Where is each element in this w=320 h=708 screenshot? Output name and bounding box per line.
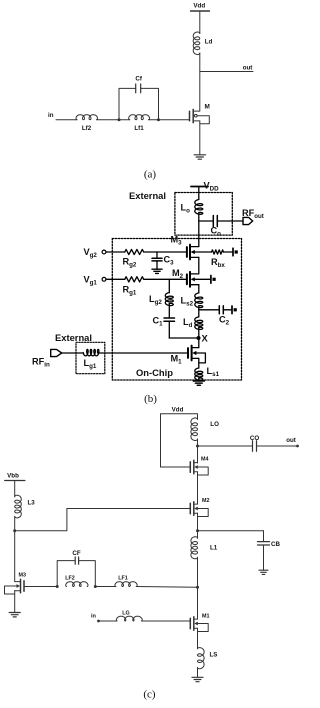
node CB branch	[196, 529, 199, 532]
wire M4 drain up	[197, 446, 199, 463]
wire Rg2 to M3 gate	[144, 251, 187, 253]
node bias	[13, 529, 16, 532]
wire Lg1 to M1 gate	[98, 352, 188, 354]
wire node to LF1	[95, 586, 116, 588]
svg-text:M3: M3	[19, 573, 27, 579]
input in (c)	[91, 614, 100, 623]
wire Vdd to Ld	[199, 11, 201, 34]
svg-text:Vdd: Vdd	[193, 3, 205, 10]
capacitor CO	[250, 435, 259, 451]
svg-text:(a): (a)	[144, 169, 157, 181]
label External bottom	[55, 332, 92, 343]
svg-text:L1: L1	[210, 545, 218, 552]
svg-text:Lf1: Lf1	[134, 125, 144, 132]
inductor LO	[191, 418, 219, 441]
transistor M2 (c)	[190, 498, 209, 517]
wire M1 body loop	[196, 353, 205, 363]
power Vbb	[5, 473, 25, 481]
svg-text:out: out	[286, 437, 296, 444]
wire out branch	[200, 64, 253, 71]
label On-Chip	[136, 367, 173, 378]
node X	[197, 333, 209, 344]
wire LF1 to rail	[136, 586, 197, 589]
inductor Ld (b)	[183, 317, 203, 330]
svg-text:L3: L3	[28, 500, 36, 507]
inductor Lg1	[83, 349, 99, 370]
wire step to M2 gate	[15, 509, 191, 531]
wire Lf1 to gate	[149, 119, 190, 121]
svg-text:M4: M4	[201, 457, 209, 463]
wire Ls2 to Ld node	[198, 306, 200, 317]
svg-text:Ld: Ld	[205, 39, 213, 46]
wire Rbx to tick	[224, 251, 234, 253]
power VDD (b)	[191, 181, 219, 193]
svg-text:out: out	[243, 64, 253, 71]
capacitor C1	[153, 304, 175, 339]
node LF1 junction	[196, 586, 199, 589]
wire CO to out	[257, 437, 299, 447]
ground CB	[259, 570, 268, 574]
wire in to Lf2	[56, 119, 77, 121]
wire M2 body to tick	[195, 278, 211, 280]
svg-text:(c): (c)	[143, 689, 156, 701]
port Vg1	[84, 274, 106, 286]
label External top	[129, 190, 166, 201]
port RFin	[32, 349, 62, 368]
wire M4 source to M2 drain	[197, 472, 199, 504]
ground C3	[152, 269, 162, 273]
transistor M3	[171, 235, 199, 260]
inductor Lo	[181, 200, 203, 215]
wire Ld to out node	[199, 53, 201, 111]
svg-text:External: External	[129, 190, 166, 201]
wire M2 source to Ls2	[198, 285, 200, 293]
ac ground tick M2 body	[211, 276, 216, 284]
wire Lf2 to node	[97, 119, 130, 121]
power Vdd (a)	[191, 3, 210, 12]
wire Vg2 to Rg2	[106, 251, 125, 253]
svg-text:Vbb: Vbb	[7, 473, 19, 480]
inductor Ls2	[181, 293, 203, 308]
node out (c)	[196, 445, 199, 448]
inductor Lg2	[149, 279, 173, 306]
svg-text:X: X	[202, 333, 209, 344]
wire Ld to X	[198, 327, 200, 347]
resistor Rg2	[123, 249, 144, 268]
svg-text:Vdd: Vdd	[172, 407, 184, 414]
inductor LF1	[115, 576, 137, 587]
svg-text:Lf2: Lf2	[82, 125, 92, 132]
wire M3 body to Rbx	[195, 251, 212, 253]
svg-text:in: in	[48, 112, 54, 119]
wire LO to node	[197, 439, 199, 463]
wire L3 to node	[14, 516, 16, 581]
inductor LF2	[65, 576, 88, 587]
wire Vdd loop top	[161, 414, 198, 467]
resistor Rg1	[123, 277, 144, 297]
wire LS to ground	[197, 668, 199, 678]
capacitor C3	[152, 252, 174, 269]
svg-text:LS: LS	[210, 652, 218, 659]
wire M source to ground	[199, 121, 201, 155]
svg-text:(b): (b)	[144, 393, 157, 405]
wire LG to M1 gate	[142, 620, 191, 622]
inductor Lf2	[76, 115, 98, 132]
svg-text:CF: CF	[72, 550, 80, 557]
node Cf left	[118, 118, 121, 121]
inductor Lf1	[129, 115, 150, 132]
inductor LS	[198, 648, 218, 669]
svg-text:LF1: LF1	[118, 576, 128, 582]
capacitor C2	[199, 306, 232, 327]
inductor Ls1	[195, 366, 220, 380]
inductor L3	[15, 495, 36, 518]
inductor L1	[191, 537, 218, 559]
external box top	[175, 193, 232, 236]
capacitor Co	[199, 216, 243, 238]
transistor M1 (c)	[190, 614, 209, 632]
wire node to CB	[198, 530, 264, 532]
transistor M2	[172, 268, 199, 287]
svg-text:M2: M2	[202, 498, 210, 504]
transistor M3 (c)	[5, 573, 27, 595]
ac ground tick M3 body	[233, 248, 238, 256]
caption (b)	[144, 393, 157, 405]
caption (a)	[144, 169, 157, 181]
transistor M4	[190, 457, 208, 476]
wire Lo to node	[198, 213, 200, 247]
wire M3 gate to node1	[24, 586, 57, 588]
wire M3 source to ground	[14, 591, 16, 613]
node CF right	[94, 585, 97, 588]
port Vg2	[84, 247, 106, 259]
capacitor CF	[57, 550, 95, 587]
wire Vg1 to Rg1	[106, 278, 125, 280]
on-chip box	[112, 239, 241, 381]
svg-text:CB: CB	[271, 541, 280, 548]
wire VDD to Lo	[198, 187, 200, 200]
wire C1 to X	[169, 337, 198, 339]
wire L1 to node LF1	[197, 557, 199, 619]
port RFout	[242, 208, 264, 225]
inductor Ld	[193, 32, 212, 55]
svg-text:CO: CO	[250, 435, 259, 442]
resistor Rbx	[211, 250, 225, 269]
wire RFin to Lg1	[62, 352, 83, 354]
wire M1 source to LS	[197, 628, 199, 649]
node CF left	[56, 585, 59, 588]
transistor M1 (b)	[171, 346, 199, 366]
caption (c)	[143, 689, 156, 701]
ground (a)	[194, 155, 206, 159]
ground M3	[9, 613, 20, 617]
wire M2 source to node	[197, 513, 199, 538]
svg-text:M: M	[205, 104, 210, 111]
svg-text:Cf: Cf	[135, 76, 142, 83]
wire Vbb to L3	[14, 481, 16, 497]
svg-text:External: External	[55, 332, 92, 343]
wire Ls1 to ground	[198, 378, 200, 381]
power Vdd (c)	[172, 407, 184, 414]
wire M3 source to M2 drain	[198, 257, 200, 273]
wire Rg1 to M2 gate	[144, 278, 187, 280]
svg-text:LO: LO	[210, 421, 219, 428]
ground Ls1	[193, 381, 204, 385]
transistor M	[190, 104, 210, 124]
ground LS	[192, 677, 203, 681]
inductor LG	[116, 611, 142, 622]
wire in to LG	[99, 620, 118, 622]
ac ground tick C2	[232, 306, 237, 314]
svg-text:M1: M1	[202, 614, 210, 620]
external box bottom	[76, 342, 105, 373]
wire M1 source to Ls1	[198, 358, 200, 368]
input label in	[48, 112, 54, 119]
wire loop to M4 gate	[161, 466, 191, 468]
svg-text:in: in	[91, 614, 97, 620]
capacitor CB	[258, 531, 281, 570]
node Cf right	[157, 118, 160, 121]
svg-text:LF2: LF2	[65, 576, 75, 582]
svg-text:LG: LG	[122, 611, 130, 617]
svg-text:On-Chip: On-Chip	[136, 367, 173, 378]
wire node to CO	[198, 445, 253, 447]
capacitor Cf	[119, 76, 159, 120]
